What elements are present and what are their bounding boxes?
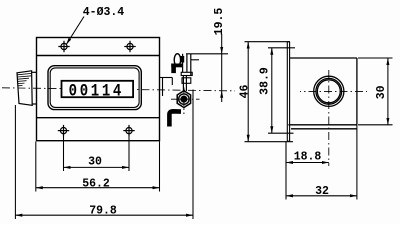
leader 4-dia3.4: [66, 17, 84, 45]
svg-text:4-Ø3.4: 4-Ø3.4: [83, 6, 125, 19]
hex vertical centerline: [183, 88, 185, 115]
shaft circles: [314, 76, 344, 106]
svg-text:32: 32: [315, 185, 329, 198]
dim 56.2 line: [36, 187, 160, 189]
housing step: [160, 78, 191, 97]
flange plate: [287, 42, 289, 142]
side vertical centerline: [328, 70, 330, 166]
dim 32 extension lines: [285, 142, 287, 200]
display bezel inner: [50, 68, 139, 108]
digit window: [62, 81, 134, 97]
dim 18.8 line: [286, 162, 329, 164]
front view body outline: [37, 38, 160, 141]
svg-text:19.5: 19.5: [213, 8, 226, 36]
lever rod verticals: [183, 54, 191, 91]
dim 79.8 line: [15, 214, 193, 216]
lever ring ellipse: [174, 54, 180, 66]
dim 46 extension lines: [245, 41, 291, 43]
dim 79.8 extension lines: [14, 105, 16, 219]
side body: [288, 58, 357, 129]
lever second top line: [191, 59, 199, 61]
centerline front view: [2, 88, 235, 91]
knob knurl hatching: [17, 73, 31, 85]
dim 19.5 line: [221, 34, 223, 54]
dim 18.8 extension line left: [285, 143, 287, 167]
reset knob left: [17, 71, 37, 106]
svg-text:79.8: 79.8: [89, 205, 117, 218]
hole bottom-right: [123, 125, 134, 136]
svg-text:56.2: 56.2: [82, 178, 110, 191]
dim 30 line: [64, 166, 130, 168]
dim 32 line: [286, 195, 357, 197]
lever top line: [186, 53, 228, 55]
hole top-left: [58, 41, 69, 52]
dim 30 side extension lines: [358, 57, 393, 59]
lever black bracket: [171, 56, 184, 73]
side horizontal centerline: [300, 90, 367, 92]
svg-text:38.9: 38.9: [258, 67, 271, 95]
svg-text:30: 30: [375, 85, 388, 99]
svg-text:18.8: 18.8: [294, 151, 322, 164]
bottom flange top edge: [37, 117, 160, 119]
hole bottom-left: [58, 125, 69, 136]
svg-text:00114: 00114: [69, 81, 124, 101]
hole top-right: [124, 41, 135, 52]
dim 30 extension lines: [63, 133, 65, 171]
svg-text:30: 30: [88, 156, 102, 169]
bent lever: [169, 111, 181, 126]
dim 30 side line: [387, 58, 389, 125]
dim 38.9 extension lines: [268, 47, 295, 49]
top flange bottom edge: [37, 55, 160, 57]
svg-text:46: 46: [239, 85, 252, 99]
dim 56.2 extension lines: [35, 142, 37, 192]
display bezel outer: [48, 66, 141, 110]
hex horizontal centerline: [171, 98, 200, 100]
collar washer: [181, 72, 192, 75]
hex nut: [177, 91, 190, 108]
dim 46 line: [247, 42, 249, 142]
dim 38.9 line: [271, 48, 273, 133]
